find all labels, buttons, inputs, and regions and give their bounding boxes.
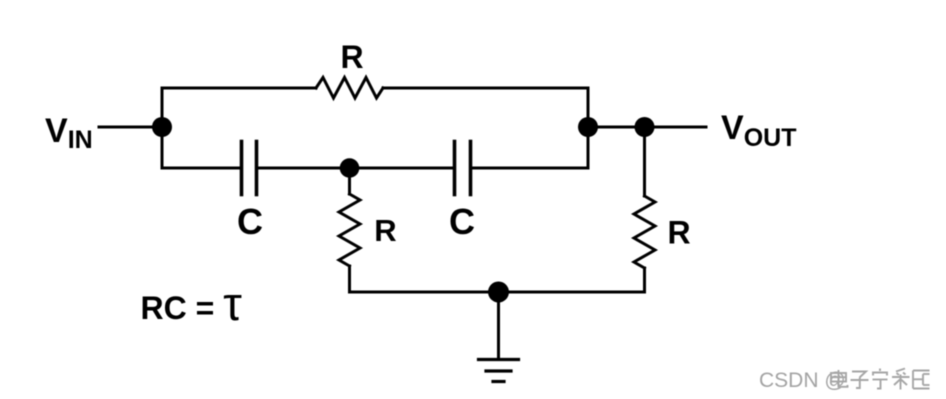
resistor R middle: [339, 194, 360, 266]
svg-text:R: R: [667, 215, 690, 251]
wire middle rail seg3: [472, 167, 588, 170]
wire right vertical: [587, 88, 590, 168]
wire node row: [588, 126, 706, 129]
wire ground stem: [497, 292, 500, 357]
wire middle rail seg2: [258, 167, 453, 170]
wire bottom rail: [350, 291, 645, 294]
wire VIN lead: [99, 126, 162, 129]
svg-text:R: R: [340, 39, 363, 75]
junction input node: [152, 117, 172, 137]
wire top rail left: [162, 87, 316, 90]
wire middle resistor top lead: [348, 168, 351, 194]
svg-text:C: C: [449, 201, 475, 242]
wire right resistor top lead: [643, 127, 646, 196]
watermark chinese glyphs: [831, 369, 930, 390]
resistor R top: [316, 78, 383, 99]
watermark CSDN: [759, 369, 846, 392]
ground: [479, 360, 519, 382]
junction ground node: [488, 282, 509, 303]
junction center node: [340, 158, 360, 178]
wire middle rail seg1: [162, 167, 240, 170]
junction VOUT node: [635, 117, 655, 137]
wire middle resistor bottom lead: [348, 266, 351, 292]
glyph zi: [851, 372, 869, 389]
glyph ning: [873, 369, 888, 389]
wire right resistor bottom lead: [643, 268, 646, 292]
capacitor C right: [455, 142, 471, 195]
svg-text:C: C: [237, 201, 263, 242]
resistor R right: [634, 196, 655, 268]
glyph dian: [831, 370, 848, 387]
svg-text:R: R: [374, 213, 396, 248]
wire left vertical: [161, 88, 164, 168]
glyph cai: [892, 369, 910, 390]
wire top rail right: [383, 87, 588, 90]
capacitor C left: [242, 142, 257, 195]
glyph chen: [913, 371, 930, 389]
junction top-right node: [578, 117, 598, 137]
